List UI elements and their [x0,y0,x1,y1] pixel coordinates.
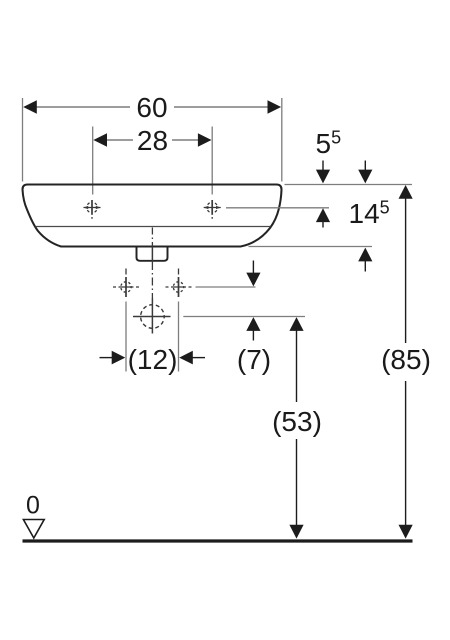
dim 14.5 up arrow [358,248,372,272]
tap hole right [203,200,221,219]
dim 28 line [93,133,211,147]
dim 14.5 down arrow [358,161,372,184]
dim 60 line [23,100,281,114]
svg-text:0: 0 [26,492,40,520]
washbasin inner rim line [36,226,271,228]
dim 7 up arrow [246,317,260,340]
supply connection right [166,269,192,298]
dim 53 line [289,317,303,538]
svg-text:(7): (7) [237,344,271,375]
supply connection left [113,269,139,298]
trap circle [141,305,165,329]
svg-text:55: 55 [316,128,342,160]
drain fitting [137,248,168,261]
dim 60 extension line right [281,98,283,182]
dim 12 left arrow [100,351,126,365]
drain centerline [151,228,153,334]
svg-text:60: 60 [136,92,167,123]
tap hole left [83,200,101,219]
floor line [23,539,413,542]
svg-text:28: 28 [137,125,168,156]
dim 12 extension line left [125,302,127,372]
dim 7 down arrow [246,261,260,287]
dim 28 extension line left [92,127,94,195]
datum triangle [23,520,44,539]
dim 12 extension line right [178,302,180,372]
svg-text:(12): (12) [128,344,178,375]
rim level line [285,184,413,186]
dim 12 right arrow [179,351,205,365]
svg-text:(53): (53) [272,406,322,437]
supply level line [196,286,256,288]
svg-text:(85): (85) [381,344,431,375]
svg-text:145: 145 [349,198,390,230]
trap cross horizontal [133,316,171,318]
trap level line [183,316,305,318]
tap level line [226,207,329,209]
dim 60 extension line left [22,98,24,182]
washbasin outline [23,185,282,247]
basin bottom level line [249,246,373,248]
dim 28 extension line right [211,127,213,195]
dim 85 line [399,185,413,539]
dim 5.5 down arrow [316,161,330,184]
dim 5.5 up arrow [316,208,330,227]
